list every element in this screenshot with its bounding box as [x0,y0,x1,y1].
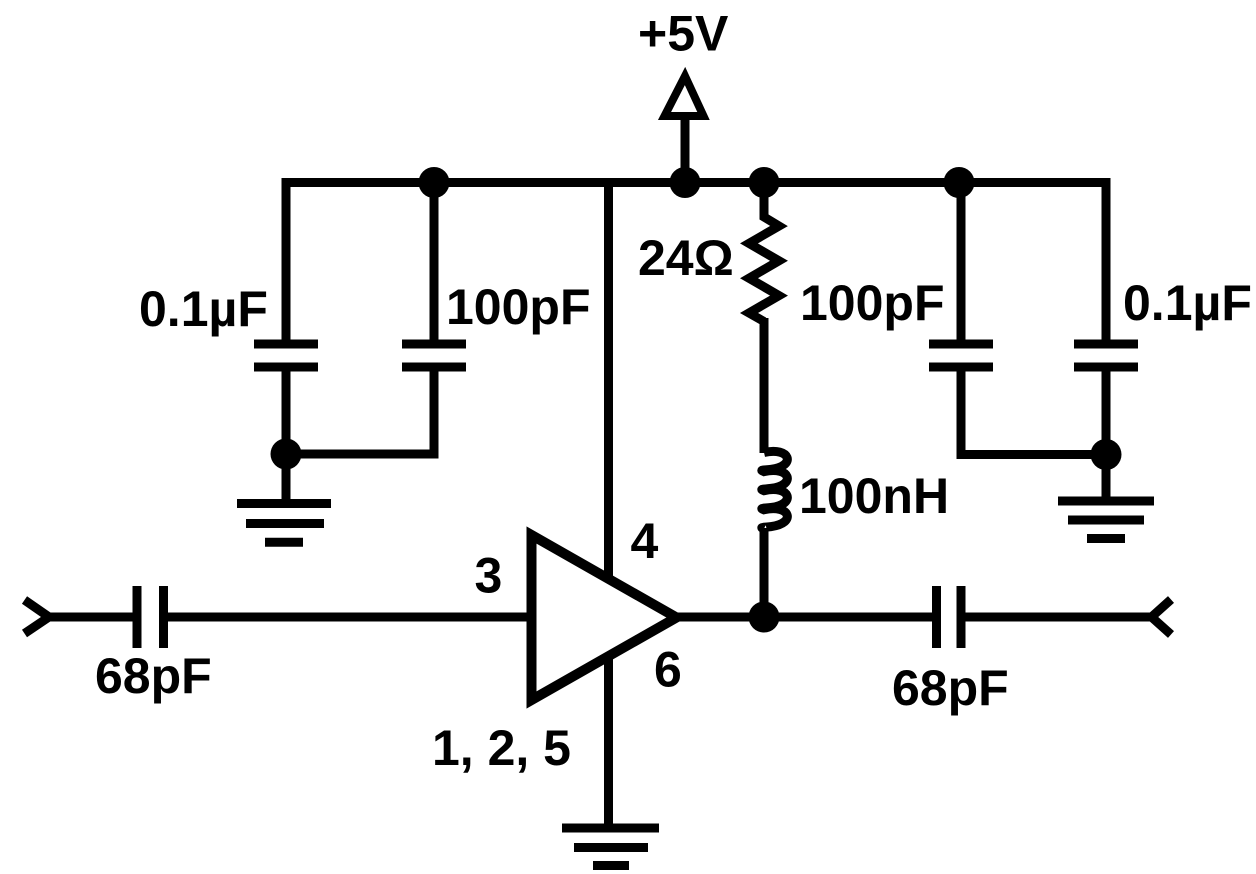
capacitor C1 0.1uF (left) [254,344,318,367]
ground (left) [237,454,331,542]
node: rail dot above right 100pF [944,167,975,198]
capacitor C3 100pF (right) [929,344,993,367]
svg-text:100pF: 100pF [800,275,945,331]
wire: input cap to amplifier pin 3 [168,613,532,622]
wire: inductor to output node [760,528,769,617]
svg-text:100nH: 100nH [799,468,949,524]
wire: right 0.1uF to ground node [1102,371,1111,455]
svg-text:68pF: 68pF [892,660,1009,716]
wire: left 100pF down and left to ground node [286,371,434,454]
node: rail dot above left 100pF [419,167,450,198]
wire: +5V top rail [282,178,1111,187]
wire: left 100pF branch from rail [430,183,439,340]
svg-text:0.1µF: 0.1µF [139,281,268,337]
ground (right) [1058,455,1154,539]
wire: right 0.1uF branch from rail [1102,178,1111,340]
svg-text:3: 3 [475,548,503,604]
op-amp U1 (RF amplifier triangle) [532,535,677,700]
wire: amplifier output to output cap [675,613,932,622]
node: output junction dot [749,602,780,633]
wire: resistor to inductor [760,318,769,453]
output port connector [1152,600,1172,635]
svg-text:100pF: 100pF [446,279,591,335]
input port connector [25,600,50,634]
capacitor C6 68pF (output) [937,586,962,648]
ground (bottom, pins 1 2 5) [562,828,659,866]
svg-text:24Ω: 24Ω [638,230,734,286]
node: rail dot at +5V stem [670,167,701,198]
wire: input to coupling cap [47,613,133,622]
svg-text:68pF: 68pF [95,648,212,704]
svg-text:+5V: +5V [638,6,729,62]
node: rail dot at 24ohm branch [749,167,780,198]
resistor R1 24 ohm [749,183,779,322]
wire: pin 4 line from rail to amplifier [604,183,613,600]
wire: left 0.1uF branch from rail [282,178,291,340]
inductor L1 100nH [762,451,788,529]
wire: left 0.1uF to ground node [282,371,291,454]
wire: right 100pF down and right to ground node [961,371,1106,455]
svg-text:4: 4 [631,513,659,569]
node: left ground junction dot [271,439,302,470]
wire: pin 1,2,5 line from amplifier to ground [604,640,613,828]
svg-text:1, 2, 5: 1, 2, 5 [432,720,571,776]
node: right ground junction dot [1091,439,1122,470]
wire: right 100pF branch from rail [957,183,966,340]
capacitor C4 0.1uF (right) [1074,344,1138,367]
+5V supply symbol [665,76,704,183]
capacitor C2 100pF (left) [402,344,466,367]
svg-text:6: 6 [654,642,682,698]
wire: output cap to output port [965,613,1152,622]
capacitor C5 68pF (input) [137,586,164,648]
svg-text:0.1µF: 0.1µF [1123,275,1252,331]
